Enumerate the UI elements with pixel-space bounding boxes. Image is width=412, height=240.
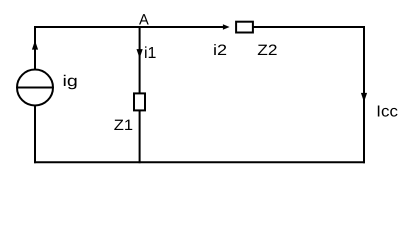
wire middle upper: node A to Z1 [139, 27, 141, 94]
current source ig bar [17, 87, 53, 89]
impedance Z2 (box) [236, 22, 253, 33]
svg-text:Z2: Z2 [257, 42, 277, 59]
svg-text:Z1: Z1 [114, 117, 133, 134]
wire left upper: corner to current source [34, 26, 36, 70]
svg-text:ig: ig [63, 73, 78, 90]
impedance Z1 (box) [134, 93, 145, 110]
svg-text:i1: i1 [144, 45, 157, 62]
wire middle lower: Z1 to bottom wire [139, 111, 141, 163]
arrowhead i1 (down) [137, 49, 143, 58]
wire left lower: current source to bottom wire [34, 105, 36, 163]
wire top right: Z2 to top-right corner [254, 26, 366, 28]
wire right: top-right corner to bottom-right corner [363, 26, 365, 163]
wire bottom [34, 161, 365, 163]
arrowhead i2 (right) [223, 24, 230, 30]
arrowhead Icc (down) [361, 93, 367, 102]
svg-text:Icc: Icc [376, 104, 398, 121]
current source ig (circle) [17, 70, 53, 106]
arrowhead ig (up) [32, 41, 38, 50]
svg-text:i2: i2 [213, 42, 227, 59]
wire top: node A to i2 arrow [34, 26, 224, 28]
svg-text:A: A [139, 12, 149, 29]
